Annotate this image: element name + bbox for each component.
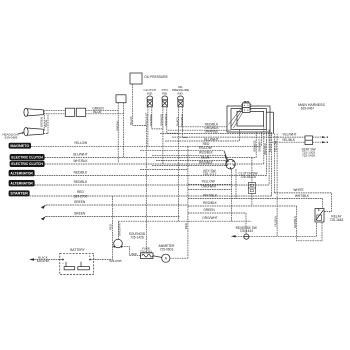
main harness inner loop (237, 111, 264, 126)
wire wht/blk drop to relay (322, 199, 324, 209)
wire red/blk key (152, 154, 225, 156)
svg-text:RED/BLK: RED/BLK (180, 114, 184, 126)
key sw label (203, 169, 217, 176)
wire blu/wht electric clutch (45, 157, 257, 159)
svg-text:629-2700: 629-2700 (74, 194, 88, 198)
clutch switch leads (251, 158, 253, 183)
relay label (330, 215, 344, 222)
svg-text:BLACK: BLACK (129, 116, 133, 125)
svg-text:IND.: IND. (162, 91, 168, 95)
wire org/wht below (188, 189, 232, 191)
svg-text:BLUE: BLUE (201, 156, 209, 160)
harness diagonal bundle (229, 108, 243, 129)
short row (140, 169, 188, 171)
bundle wire red/blk (266, 129, 268, 175)
rotated labels black red/blk (176, 114, 184, 126)
main harness outer loop (227, 106, 270, 132)
wire key sw drop (231, 169, 233, 221)
bundle wire wht/blk (263, 126, 265, 164)
bundle rotated labels (253, 139, 278, 155)
wire solenoid right to fuse (122, 247, 141, 256)
svg-text:ORANGE: ORANGE (149, 114, 153, 126)
bundle wire red/blk 2 (268, 129, 270, 185)
wire red/blk long (188, 205, 297, 207)
svg-text:STARTER: STARTER (10, 192, 28, 196)
svg-text:BLU/WHT: BLU/WHT (73, 152, 87, 156)
svg-text:YEL/WHT: YEL/WHT (282, 133, 296, 137)
battery (60, 253, 94, 274)
svg-text:RED/BLK: RED/BLK (74, 170, 89, 174)
svg-text:GREEN: GREEN (116, 121, 120, 131)
ammeter (162, 254, 170, 262)
alternator box 2 (9, 180, 35, 186)
wire green headlight run (44, 110, 66, 112)
svg-text:ORG/WHT: ORG/WHT (118, 222, 122, 236)
reverse switch arrow (231, 235, 244, 237)
bundle wire orange (255, 132, 257, 158)
bundle wire white (273, 134, 275, 193)
svg-text:RED/BLK: RED/BLK (293, 216, 297, 228)
svg-text:BLU/WHT: BLU/WHT (204, 137, 218, 141)
wire green from bulb2 up (43, 111, 46, 131)
svg-text:BLUE: BLUE (44, 120, 48, 127)
svg-text:ALTERNATOR: ALTERNATOR (10, 171, 33, 175)
svg-text:725-1439: 725-1439 (302, 154, 315, 158)
wire wht/blk long (188, 198, 323, 200)
svg-text:629-0795: 629-0795 (109, 259, 122, 263)
svg-text:ORANGE: ORANGE (253, 140, 257, 152)
electric clutch box 2 (10, 161, 45, 167)
svg-text:BLUE: BLUE (93, 110, 101, 114)
svg-text:ORG/WHT: ORG/WHT (201, 185, 216, 189)
wire green to junction (86, 110, 119, 112)
wire battery right (90, 259, 113, 261)
reverse switch (244, 234, 249, 239)
alternator box 1 (9, 170, 35, 176)
wire white relay (274, 193, 331, 212)
wire red/blk key 2 (152, 165, 226, 167)
wire red/blk alternator 2 (35, 184, 270, 186)
seat switch label (301, 148, 315, 158)
rotated labels orange org/blk (160, 113, 168, 126)
seat switch (305, 136, 313, 145)
svg-text:RED: RED (131, 252, 137, 256)
rotated labels org/wht orange (145, 112, 153, 126)
svg-text:ORG/WHT: ORG/WHT (202, 216, 217, 220)
wire green drop to reverse (245, 213, 247, 234)
wire red/blk harness (178, 126, 227, 128)
svg-text:629-0469: 629-0469 (5, 135, 18, 139)
wire blue to junction (86, 113, 124, 115)
wire red/blk relay bottom (297, 206, 322, 241)
svg-text:RED/BLK: RED/BLK (199, 151, 214, 155)
pto indicator lamp (162, 88, 169, 107)
svg-text:MAGNETO: MAGNETO (10, 144, 29, 148)
wire blue key (156, 159, 226, 161)
oil pressure indicator lamp (172, 85, 189, 107)
connector 2 (76, 108, 85, 116)
wire reverse to relay (249, 222, 317, 236)
oil ind leads (178, 107, 180, 221)
wire green mid (188, 212, 246, 214)
svg-text:725-1717: 725-1717 (203, 172, 217, 176)
battery left arrow (29, 258, 34, 260)
svg-text:IND.: IND. (147, 91, 153, 95)
svg-text:BATTERY: BATTERY (70, 248, 85, 252)
svg-text:OIL PRESSURE: OIL PRESSURE (144, 75, 167, 79)
rotated labels green/blue (39, 117, 48, 127)
wire red riser (187, 146, 189, 258)
wire yellow key (140, 150, 224, 152)
relay (315, 209, 324, 223)
svg-text:GREEN: GREEN (74, 200, 86, 204)
wire red starter to solenoid (112, 196, 114, 260)
wire black from oil pressure sw (133, 84, 147, 126)
svg-text:725-1648: 725-1648 (330, 218, 344, 222)
electric clutch box 1 (10, 154, 45, 160)
svg-text:RED: RED (184, 223, 188, 229)
wire blue headlight run (44, 113, 66, 115)
wire blu/wht harness (172, 136, 305, 138)
bundle wire yellow (260, 132, 262, 146)
headlight label (2, 132, 24, 139)
svg-text:ORG/BLK: ORG/BLK (263, 143, 267, 155)
svg-text:IND.: IND. (177, 91, 183, 95)
wire solenoid left (113, 246, 115, 248)
wire fuse to ammeter (153, 256, 162, 258)
svg-text:725-0603: 725-0603 (160, 247, 174, 251)
fuse (141, 253, 154, 259)
svg-text:ORG/WHT: ORG/WHT (258, 139, 262, 152)
svg-text:RED/BLK: RED/BLK (203, 201, 218, 205)
connector 1 (65, 108, 74, 116)
svg-text:YEL/BLK: YEL/BLK (273, 216, 277, 227)
wire org/wht long (119, 220, 252, 222)
svg-text:ALTERNATOR: ALTERNATOR (10, 181, 33, 185)
wire blue from bulb2 up (44, 114, 48, 134)
svg-text:−: − (62, 262, 64, 266)
pto ind leads (162, 107, 164, 164)
clutch indicator lamp (144, 88, 157, 107)
svg-text:WHT/BLK: WHT/BLK (73, 159, 88, 163)
starter box (9, 190, 30, 196)
svg-text:725-1426: 725-1426 (130, 236, 144, 240)
harness top connector (241, 101, 251, 112)
svg-text:ELECTRIC CLUTCH: ELECTRIC CLUTCH (11, 162, 43, 166)
seat switch arrows (313, 136, 329, 143)
svg-text:629-0748: 629-0748 (37, 259, 50, 263)
svg-text:WHITE: WHITE (293, 188, 303, 192)
svg-text:YELLOW: YELLOW (74, 141, 87, 145)
wire blue vertical drop (123, 103, 125, 158)
svg-text:ELECTRIC CLUTCH: ELECTRIC CLUTCH (11, 155, 43, 159)
clutch switch (248, 183, 255, 194)
wire battery left (34, 259, 63, 261)
main harness mid loop (231, 109, 266, 130)
fuse label (140, 246, 153, 253)
key switch (224, 151, 235, 169)
wire ammeter to red riser (170, 257, 188, 259)
clutch ind leads (147, 107, 149, 147)
solenoid label (129, 232, 146, 240)
svg-text:ORG/BLK: ORG/BLK (164, 113, 168, 126)
svg-text:ORANGE: ORANGE (205, 130, 219, 134)
svg-text:BLACK: BLACK (268, 143, 272, 152)
ammeter label (159, 244, 176, 251)
black label (37, 256, 50, 263)
svg-text:YELLOW: YELLOW (201, 179, 214, 183)
wire red starter (30, 195, 272, 197)
wire yel/blk (270, 132, 305, 142)
bundle wire yel/blk (276, 134, 278, 237)
solenoid (114, 239, 123, 248)
clutch switch label (239, 171, 258, 178)
svg-text:629-0467: 629-0467 (301, 107, 315, 111)
svg-text:725-3437A: 725-3437A (240, 175, 256, 179)
svg-text:RED: RED (109, 224, 113, 230)
wire red mid riser (145, 126, 147, 253)
svg-text:WHT/BLK: WHT/BLK (203, 194, 218, 198)
bundle wire red (271, 132, 273, 196)
svg-text:WHT/BLK: WHT/BLK (295, 194, 310, 198)
wire green 1 (46, 204, 188, 206)
wire green vertical drop (117, 103, 119, 163)
wire org/wht solenoid top (118, 221, 120, 239)
wire green 2 (46, 216, 180, 218)
reverse switch label (236, 226, 257, 233)
svg-text:+: + (89, 255, 91, 259)
harness right extension (266, 112, 273, 133)
green arrow 2 (42, 217, 47, 220)
svg-text:RED/BLK: RED/BLK (199, 161, 214, 165)
oil pressure switch (130, 73, 142, 84)
headlight bulb 2 (24, 128, 44, 136)
svg-text:RED/BLK: RED/BLK (74, 180, 89, 184)
wire wht/blk electric clutch (45, 163, 264, 165)
headlight bulb 1 (24, 108, 44, 116)
svg-text:YELLOW: YELLOW (198, 146, 211, 150)
magneto box (9, 143, 31, 149)
wire key sw drop 2 (235, 169, 237, 199)
wire org/blk harness (168, 129, 231, 131)
main harness label (298, 103, 325, 110)
wire red/blk alternator 1 (35, 175, 267, 177)
green arrow 1 (42, 205, 47, 208)
svg-text:GREEN: GREEN (74, 211, 86, 215)
wire yellow magneto (31, 145, 261, 147)
wire yellow below (188, 183, 232, 185)
svg-text:GREEN: GREEN (203, 208, 215, 212)
wire orange harness (160, 133, 273, 135)
top junction box (116, 95, 126, 103)
svg-text:GREEN: GREEN (39, 117, 43, 127)
svg-text:YEL/BLK: YEL/BLK (282, 138, 296, 142)
